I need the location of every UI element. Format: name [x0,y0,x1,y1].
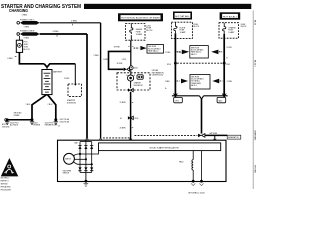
svg-text:39 PNK: 39 PNK [117,63,124,65]
instrument cluster dashed box [117,73,150,90]
svg-text:8A-30: 8A-30 [253,20,256,25]
svg-text:8A-2: 8A-2 [219,99,223,102]
warning triangle logo [1,158,19,176]
svg-text:BRIDGE: BRIDGE [63,173,69,175]
svg-text:PROCEDURE: PROCEDURE [1,189,11,191]
DIC label [152,70,164,76]
fuse block note box [147,45,164,54]
svg-text:RECTIFIER: RECTIFIER [63,170,72,172]
svg-text:2 RED: 2 RED [165,52,171,54]
positive junction block U1 [16,40,22,52]
svg-text:1 RED: 1 RED [24,26,30,28]
svg-text:SOLID STATE REGULATOR: SOLID STATE REGULATOR [150,146,180,149]
svg-text:SEE FUSE: SEE FUSE [148,46,156,48]
battery negative wires [32,95,47,120]
svg-text:SYSTEM: SYSTEM [253,165,255,173]
svg-text:C100: C100 [134,118,138,120]
svg-text:VR 1: VR 1 [175,100,179,102]
case ground [84,183,89,186]
svg-text:3 RED: 3 RED [24,37,30,39]
svg-text:C202: C202 [226,64,230,66]
svg-text:S210: S210 [167,64,171,66]
svg-text:6 RED: 6 RED [8,58,14,60]
diodes D1 D2 D3 top row (diode trio) [78,146,93,149]
page edge line [252,11,254,190]
case ground marks under field [191,183,204,185]
svg-text:SEE FUSE: SEE FUSE [191,76,199,78]
svg-text:BLOCK: BLOCK [193,26,200,28]
ring terminal of fusible link C [17,22,20,25]
wire L terminal [130,92,132,140]
junction block label [24,42,31,51]
svg-text:HOT IN RUN, BULB TEST OR START: HOT IN RUN, BULB TEST OR START [121,17,160,20]
terminal marks [86,139,89,140]
fuse block label [146,25,153,32]
wire fuse1 down to splice [130,51,132,65]
svg-text:25 BRN: 25 BRN [120,128,127,130]
regulator U2 [99,143,221,151]
ground far left [6,118,9,121]
svg-text:STRAP: STRAP [14,114,21,117]
svg-text:25 BRN: 25 BRN [120,102,127,104]
wire gages fuse down [130,40,132,51]
svg-text:CHARGING: CHARGING [9,8,28,13]
svg-text:REFER TO: REFER TO [1,180,10,182]
svg-text:MITCHELL1: MITCHELL1 [1,178,10,180]
rectifier bridge columns [79,142,81,173]
svg-text:BLOCK: BLOCK [24,49,31,51]
svg-text:SEE FUSE: SEE FUSE [191,47,199,49]
svg-text:1 RED: 1 RED [22,15,28,17]
starter solenoid dashed ref box [68,84,81,96]
svg-text:3 BRN: 3 BRN [103,59,109,61]
connector on cluster feed [124,68,127,72]
wire zigzag to indicator [109,51,131,69]
svg-text:INDICATOR: INDICATOR [134,84,144,87]
hot in run fuse box header [118,13,163,21]
fusible link E [20,32,40,36]
charge indicator bulb [128,75,134,81]
ground stub [85,172,87,181]
dashed line C105 left [103,137,130,139]
stator [64,153,75,164]
svg-text:10 AMP: 10 AMP [228,31,235,34]
svg-text:2 RED: 2 RED [71,20,78,22]
svg-text:SOLENOID: SOLENOID [67,103,77,105]
top bus [80,141,92,143]
ground labels [2,122,58,128]
svg-text:ALL MDLS: ALL MDLS [10,124,19,127]
fuse2 dashed box [172,22,193,38]
dashed line C105 right [135,135,198,137]
svg-text:2 RED: 2 RED [165,81,171,83]
ring terminal of fusible link E [17,33,20,36]
svg-text:39 PNK: 39 PNK [114,47,121,49]
ground G105 [31,118,34,121]
wire link C to V1 [40,22,101,24]
gages fuse dashed box [126,24,146,41]
svg-text:BATTERY: BATTERY [53,70,63,73]
gages fuse F1 [130,24,133,35]
svg-text:SERVICE: SERVICE [1,183,8,185]
fusible link C [20,21,40,25]
note box row1 right [177,51,181,53]
wire link E to V2 [40,33,87,35]
svg-text:GENERATOR: GENERATOR [228,136,239,139]
stator phase wires [74,151,99,156]
wire bulb down [130,81,132,88]
svg-text:C220: C220 [122,59,126,61]
wire junction block feed [19,36,21,40]
svg-text:10 AMP: 10 AMP [180,31,187,34]
connector C100 [128,116,131,119]
fuse F2 [174,22,177,33]
svg-text:CHARGING: CHARGING [253,130,256,141]
svg-text:8A-30-2: 8A-30-2 [253,60,256,67]
svg-text:2 BLK: 2 BLK [48,104,54,106]
wire junction block to battery bus [19,52,44,63]
svg-text:2 RED: 2 RED [64,78,70,80]
field coil [192,151,194,160]
wire F terminal down [201,99,203,134]
splice ring S207 [129,66,133,70]
svg-text:GROUND: GROUND [2,126,10,128]
wire F junction right [205,134,227,136]
fuse3 dashed box [219,23,239,39]
arrow to fuse note [134,47,140,49]
svg-text:BAT: BAT [75,142,78,145]
header bar [84,4,251,9]
diodes D4 D5 D6 bottom row (rectifier) [78,167,93,170]
svg-text:3 ORN: 3 ORN [226,47,232,49]
svg-text:BLOCK: BLOCK [241,26,248,28]
svg-text:CENTER (DIC): CENTER (DIC) [152,75,164,77]
bottom bus [80,171,92,173]
note box row2 right [177,80,180,82]
wire down to starter ref [74,64,76,84]
bus joining V3 V4 [172,95,200,97]
wire V1 vertical [100,23,102,139]
svg-text:4 RED: 4 RED [53,31,60,33]
fuse F3 [223,23,226,34]
generator label box [227,135,241,139]
svg-text:2 RED: 2 RED [94,55,100,57]
svg-text:S114 PG 8A: S114 PG 8A [60,120,70,123]
splice ref tags [174,97,183,102]
svg-text:3 ORN: 3 ORN [227,81,233,83]
wire V2 vertical [86,34,88,139]
generator box [58,140,227,181]
svg-text:HOT AT ALL: HOT AT ALL [175,15,189,18]
wire V4 [223,34,225,98]
ground strap wire [7,119,32,121]
hot at all times right header [220,12,241,19]
svg-text:MITCHELL1 2003: MITCHELL1 2003 [189,193,206,195]
phase junction dots [79,153,81,155]
svg-text:ENGINE BLOCK: ENGINE BLOCK [45,125,59,127]
svg-text:HOT AT ALL: HOT AT ALL [223,15,237,18]
svg-text:S207: S207 [134,68,138,70]
gauge icon [137,75,143,79]
wire V3 [174,33,176,97]
connector at F junction [198,134,201,138]
svg-text:10 AMP: 10 AMP [136,33,143,36]
svg-text:ENGINE: ENGINE [34,125,41,127]
ground G100 right [54,118,57,121]
splice dashed link [174,62,177,65]
svg-text:1 BLK: 1 BLK [26,104,32,106]
wire into bulb [130,70,132,75]
svg-text:BLOCK: BLOCK [146,30,153,32]
battery positive dip [44,64,75,67]
hot at all times left header [173,12,192,20]
svg-text:C100: C100 [178,52,182,54]
connector at cluster exit [128,88,131,91]
